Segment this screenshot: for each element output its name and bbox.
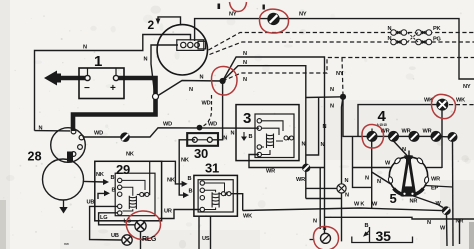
svg-text:N: N: [345, 178, 349, 184]
wire N corner to node B: [306, 96, 343, 99]
wire relay29 contact up: [148, 161, 151, 194]
wire 35 earth stub: [369, 227, 371, 243]
svg-text:N: N: [323, 124, 327, 130]
svg-text:29: 29: [116, 162, 130, 177]
snap connector PG pair right: [416, 39, 432, 45]
generator circle 2: [157, 25, 207, 75]
connector WD bullet: [120, 132, 130, 142]
relay 31 contact: [219, 192, 232, 196]
svg-text:WR: WR: [423, 129, 432, 135]
svg-text:N: N: [39, 126, 43, 132]
svg-text:N: N: [427, 220, 431, 226]
wire NK starter to relay29: [84, 180, 106, 183]
wire 35 bracket: [352, 237, 413, 243]
svg-text:B: B: [188, 176, 192, 182]
wire N frame to solenoid: [35, 130, 71, 132]
wire right bottom vertical: [459, 219, 461, 244]
svg-text:N: N: [243, 77, 247, 83]
svg-text:N: N: [388, 36, 392, 42]
svg-text:EP: EP: [431, 186, 439, 192]
connector NY circled top: [267, 13, 279, 25]
wire N battery frame top: [35, 35, 191, 131]
lamp connector 4 bullet1: [367, 129, 378, 142]
red circle bottom connector: [313, 226, 338, 249]
wire lamp row link3: [419, 135, 432, 137]
solenoid circle 28: [51, 128, 86, 163]
wire N dashed from node A: [223, 58, 474, 82]
connector WK circled: [436, 99, 448, 111]
connector N 4-way mid: [337, 184, 346, 193]
relay 29 coil: [129, 196, 136, 209]
svg-text:N: N: [402, 147, 406, 153]
snap connector PG pair left: [391, 39, 407, 45]
wire WD dashed curve: [201, 95, 212, 127]
wire box4 top and left: [358, 105, 437, 137]
svg-text:UB: UB: [87, 200, 95, 206]
wire UB loop: [90, 206, 122, 240]
svg-text:WK: WK: [456, 98, 465, 104]
svg-text:N: N: [321, 142, 325, 148]
wire US drop2: [210, 216, 212, 249]
battery 1 polarity labels: [84, 83, 116, 94]
svg-text:N: N: [313, 219, 317, 225]
svg-text:WR: WR: [402, 129, 411, 135]
wire battery negative cable (thick): [56, 76, 89, 81]
svg-text:PK: PK: [433, 26, 441, 32]
svg-text:UR: UR: [164, 209, 172, 215]
svg-text:N: N: [302, 142, 306, 148]
node WD junction: [197, 125, 203, 131]
connector W bullet right: [442, 206, 451, 215]
generator 2 terminal block: [177, 40, 206, 51]
tick top edge a: [218, 4, 221, 10]
connector LG 4-way circled: [135, 220, 146, 231]
right edge smudge: [469, 222, 474, 249]
svg-text:WR: WR: [431, 177, 440, 183]
svg-text:2: 2: [148, 18, 155, 32]
svg-text:N: N: [189, 87, 193, 93]
svg-text:WK: WK: [243, 214, 252, 220]
wire NY dashed drop to node B: [342, 58, 343, 96]
svg-text:N: N: [231, 131, 235, 137]
svg-text:WD: WD: [202, 101, 211, 107]
svg-text:N: N: [330, 104, 334, 110]
generator 2 earth arrow: [156, 19, 161, 25]
svg-text:B: B: [112, 188, 116, 194]
snap crossover X: [408, 33, 419, 43]
wiper motor 5 brush arcs: [394, 157, 424, 195]
wire NK relay29 top line: [162, 161, 184, 184]
svg-text:NK: NK: [126, 152, 134, 158]
wire W motor left: [353, 167, 392, 169]
wire WR box3 bottom: [249, 155, 325, 168]
svg-text:NY: NY: [229, 12, 237, 18]
red circle bullet1: [362, 124, 384, 148]
relay 29 outer box: [95, 161, 162, 221]
wire N vertical x319: [306, 98, 319, 156]
svg-text:3: 3: [243, 110, 251, 127]
svg-text:NY: NY: [463, 84, 471, 90]
snap connector PK pair right: [416, 30, 432, 36]
lamp connector 4 bullet3: [409, 131, 420, 142]
svg-text:UB: UB: [111, 233, 119, 239]
battery 1 body: [79, 68, 124, 99]
wiper motor 5 circle: [389, 157, 427, 195]
lamp connector 4 bullet2: [388, 131, 399, 142]
wire lamp row link2: [398, 135, 410, 137]
svg-text:WR: WR: [266, 169, 275, 175]
node A filled junction: [220, 78, 226, 84]
svg-text:NK: NK: [96, 172, 104, 178]
svg-text:N: N: [144, 57, 148, 63]
svg-text:WR: WR: [296, 177, 305, 183]
wiper motor 5 armature A: [402, 156, 416, 197]
wire N node A to line2: [223, 66, 306, 199]
svg-text:WD: WD: [94, 131, 103, 137]
starter earth arrow: [59, 200, 67, 214]
svg-text:N: N: [200, 75, 204, 81]
svg-text:−: −: [84, 83, 90, 94]
wire NR motor bottom diagonal: [412, 196, 443, 208]
solenoid to starter link (thick): [67, 152, 73, 162]
svg-text:N: N: [377, 179, 381, 185]
wire RLG below connector: [140, 232, 142, 249]
wire N node A down to fuse: [213, 81, 223, 140]
wire PK dashed row1: [209, 33, 474, 51]
wire WK relay31 contact up: [231, 194, 243, 211]
connector UB 4-way: [122, 235, 132, 245]
wire W vertical x353: [353, 136, 372, 187]
wire bottom connector tick: [310, 239, 314, 241]
relay 31 terminals: [200, 181, 204, 212]
svg-text:N: N: [388, 26, 392, 32]
solenoid terminals: [71, 129, 84, 156]
wire EP motor right lower: [425, 186, 454, 188]
svg-text:N: N: [345, 193, 349, 199]
svg-text:5: 5: [390, 191, 397, 206]
red arc top edge cut: [230, 2, 247, 12]
svg-text:WD: WD: [163, 122, 172, 128]
relay 31 outer box: [194, 175, 238, 216]
wire N junction diagonal to node A: [157, 57, 325, 233]
wire bullet1 down: [371, 142, 373, 209]
svg-text:NY: NY: [299, 12, 307, 18]
connector WR bullet: [302, 164, 310, 172]
svg-text:+: +: [110, 83, 116, 94]
svg-text:35: 35: [376, 228, 392, 244]
paper shading: [300, 9, 305, 13]
svg-text:NK: NK: [167, 178, 175, 184]
svg-text:NR: NR: [410, 199, 418, 205]
red circle RLG connector: [126, 211, 160, 240]
relay 29 inner wires: [122, 180, 145, 211]
svg-text:1: 1: [94, 53, 102, 70]
svg-text:B: B: [111, 175, 115, 181]
snap connector PK pair left: [391, 30, 407, 36]
svg-text:N: N: [243, 51, 247, 57]
battery 1 terminal posts: [85, 68, 119, 81]
relay 3 inner wires: [262, 121, 284, 155]
lamp connector 4 bullet5: [448, 132, 458, 142]
wire US drop1: [198, 216, 200, 249]
relay 3 earth arrow: [241, 132, 247, 141]
svg-text:US: US: [202, 236, 210, 242]
svg-text:WD: WD: [208, 122, 217, 128]
wire WK long bottom: [243, 208, 446, 211]
red circle WK connector: [431, 94, 455, 118]
wire bullet5 down right side: [452, 142, 455, 247]
wire WK dashed right of connector: [449, 104, 474, 106]
svg-text:NK: NK: [181, 158, 189, 164]
wire N vertical x320 lower: [319, 168, 321, 229]
relay 31 coil: [212, 192, 219, 207]
wiper motor 5 rim pads: [388, 157, 429, 196]
relay 3 outer box: [236, 105, 299, 161]
relay 31 input arrows: [182, 181, 189, 198]
wire earth arrow to dynamo top: [158, 17, 181, 25]
red circle node A: [211, 66, 237, 95]
wire N dynamo block left down to junction: [151, 45, 178, 97]
svg-text:B: B: [249, 134, 253, 140]
wire NY dynamo to top line: [195, 19, 474, 79]
connector N open bottom: [321, 233, 331, 243]
svg-text:N: N: [83, 45, 87, 51]
relay 29 contact: [137, 193, 149, 197]
svg-text:28: 28: [28, 150, 42, 164]
fuse box 30: [187, 133, 218, 146]
lamp connector 4 bullet4: [431, 131, 442, 142]
wire WD solenoid to fusebox line: [84, 128, 259, 137]
svg-text:PG: PG: [433, 37, 441, 43]
wire N bottom long right: [325, 217, 474, 219]
relay 31 inner wires: [205, 183, 225, 210]
relay 29 inner box: [115, 173, 155, 216]
svg-text:N: N: [365, 176, 369, 182]
wire WR motor right upper: [427, 167, 443, 169]
relay 3 contact: [284, 136, 294, 140]
svg-text:30: 30: [194, 146, 208, 161]
wire N fuse left down to relay31: [179, 140, 195, 195]
svg-text:B: B: [365, 223, 369, 229]
wire LG loop: [99, 213, 136, 226]
wire PG dashed row2: [210, 42, 474, 55]
wire lamp row link4: [441, 136, 449, 138]
wire battery positive cable to solenoid (thick): [73, 78, 156, 131]
relay 31 inner box: [198, 180, 233, 212]
svg-text:W K: W K: [354, 202, 364, 208]
starter motor circle 28: [43, 159, 84, 200]
svg-text:B: B: [189, 189, 193, 195]
relay 29 input arrows: [103, 179, 110, 196]
wire N node B down to lamp row: [343, 97, 367, 137]
wire N node B down-left vertical: [342, 97, 344, 242]
wire branch to motor rim: [372, 172, 392, 185]
relay 3 coil: [267, 134, 274, 149]
wire W bullet down: [446, 215, 449, 247]
svg-text:N: N: [223, 136, 227, 142]
svg-text:31: 31: [205, 161, 219, 176]
red circle NY connector: [259, 9, 288, 33]
wire N to motor top: [394, 141, 410, 157]
svg-text:N: N: [330, 87, 334, 93]
svg-text:nw: nw: [64, 241, 69, 246]
wire relay29 arrow2 stub: [98, 193, 105, 199]
node B filled junction: [340, 94, 346, 100]
svg-text:RLG: RLG: [142, 236, 157, 243]
node junction white dot on cable: [153, 94, 159, 100]
battery ground arrow: [44, 71, 61, 86]
wire N mid connector left jog: [306, 187, 337, 189]
tick top edge b: [263, 5, 265, 10]
svg-text:N: N: [243, 60, 247, 66]
relay 29 terminals: [118, 178, 122, 215]
wire UR to relay31: [158, 210, 200, 219]
svg-text:LG: LG: [100, 215, 107, 221]
wire lamp row link1: [377, 135, 389, 137]
wire WK connector drop: [441, 110, 443, 169]
relay 3 terminals: [257, 119, 261, 157]
svg-text:NY: NY: [336, 71, 344, 77]
relay 3 inner box: [255, 114, 294, 158]
